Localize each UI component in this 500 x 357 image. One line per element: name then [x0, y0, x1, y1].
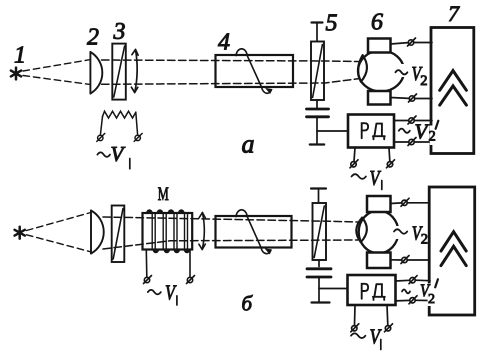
svg-text:7: 7: [448, 1, 460, 26]
svg-text:2: 2: [421, 231, 428, 247]
svg-text:б: б: [242, 292, 254, 316]
svg-text:4: 4: [218, 30, 230, 56]
svg-text:V: V: [370, 166, 382, 190]
svg-text:V: V: [370, 325, 382, 349]
svg-text:3: 3: [113, 19, 126, 45]
svg-text:6: 6: [371, 10, 383, 36]
svg-text:2: 2: [87, 25, 99, 51]
svg-text:2: 2: [428, 292, 435, 307]
svg-text:а: а: [242, 130, 255, 159]
svg-text:5: 5: [326, 11, 338, 37]
svg-text:V: V: [415, 119, 430, 143]
svg-text:2: 2: [429, 129, 436, 145]
svg-text:V: V: [165, 280, 177, 304]
svg-text:М: М: [158, 184, 169, 205]
svg-text:V: V: [111, 142, 126, 166]
svg-text:1: 1: [14, 43, 26, 69]
svg-text:2: 2: [420, 73, 427, 89]
